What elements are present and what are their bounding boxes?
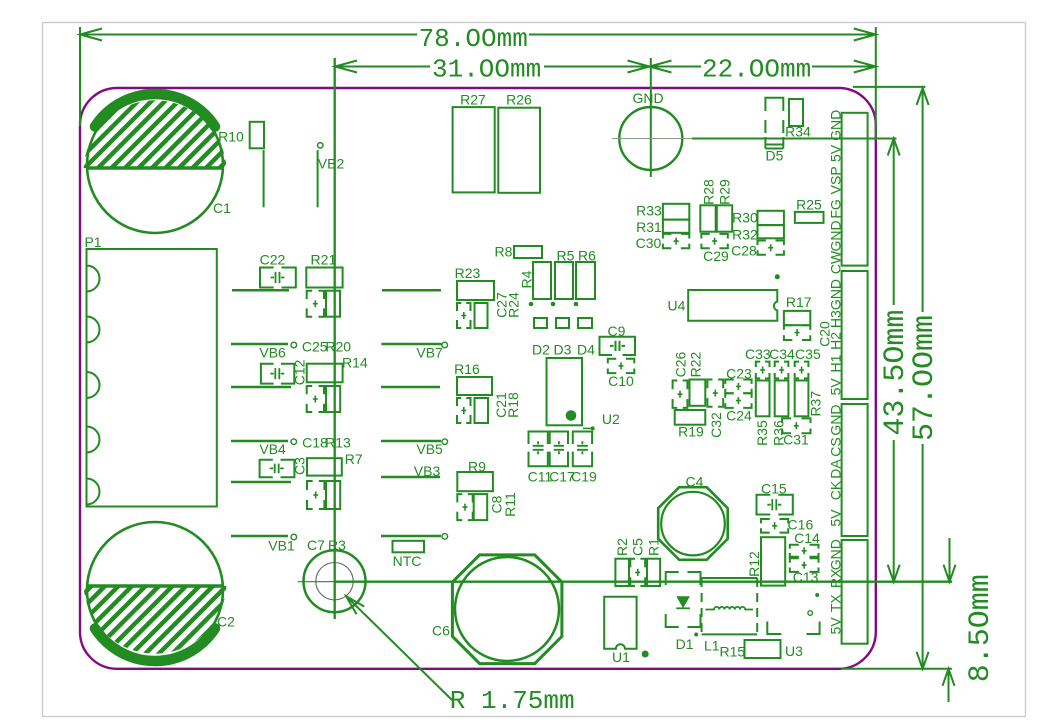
svg-text:TX: TX [828, 594, 844, 613]
resistor under R7 [326, 481, 340, 509]
capacitor C1 [0, 75, 380, 255]
capacitor C18 [260, 435, 328, 478]
resistor R27 [453, 92, 495, 193]
svg-text:C34: C34 [769, 346, 795, 362]
resistor R6 [576, 248, 596, 300]
pin label FG y208.9 [828, 199, 844, 218]
wire y=290 right [382, 289, 441, 292]
resistor R30 [732, 210, 784, 226]
svg-text:CW: CW [828, 250, 844, 274]
capacitor C10 [608, 359, 635, 389]
svg-text:U2: U2 [602, 411, 620, 427]
svg-text:VB5: VB5 [416, 441, 443, 457]
svg-text:R27: R27 [460, 92, 486, 108]
svg-text:C14: C14 [794, 530, 820, 546]
resistor R8 [495, 244, 542, 260]
capacitor C33 [745, 346, 771, 378]
svg-text:31.OOmm: 31.OOmm [432, 54, 541, 84]
svg-text:C3: C3 [292, 457, 308, 475]
wire y=290 left [232, 289, 289, 292]
pin label CW y262.5 [828, 250, 844, 274]
svg-text:R9: R9 [468, 459, 486, 475]
svg-text:R8: R8 [495, 244, 513, 260]
resistor R24 [475, 292, 522, 328]
svg-text:C5: C5 [630, 538, 646, 556]
capacitor C30 [636, 234, 690, 251]
capacitor C31 [782, 418, 810, 447]
capacitor C20 [784, 321, 833, 347]
pin label 5V y518 [828, 509, 844, 527]
svg-text:5V: 5V [828, 144, 844, 162]
dimension 8.50mm [943, 538, 999, 702]
svg-text:R21: R21 [311, 252, 337, 268]
svg-text:FG: FG [828, 199, 844, 218]
svg-text:GND: GND [828, 279, 844, 310]
capacitor C13 [790, 558, 819, 585]
svg-text:H3: H3 [828, 310, 844, 328]
resistor under R21 [326, 291, 340, 317]
wire NTC row [381, 534, 448, 540]
capacitor C16 [761, 516, 813, 532]
pin label CK y490.5 [828, 480, 844, 500]
capacitor C27 [457, 292, 510, 328]
svg-text:R34: R34 [785, 124, 811, 140]
svg-text:57.OOmm: 57.OOmm [908, 315, 942, 441]
svg-text:VB3: VB3 [414, 463, 441, 479]
dimension 31.00mm [335, 54, 650, 84]
svg-text:RX: RX [828, 568, 844, 588]
capacitor C12 label [292, 359, 308, 385]
resistor R9 [457, 459, 493, 492]
wire VB1 [231, 534, 297, 553]
svg-text:VB6: VB6 [259, 345, 286, 361]
svg-text:U1: U1 [612, 649, 630, 665]
extension line y=668.8 bottom right [841, 668, 952, 670]
diode D3 [554, 318, 572, 358]
wire VB6 [231, 342, 297, 360]
svg-text:C13: C13 [793, 569, 819, 585]
dimension 22.00mm [650, 54, 876, 84]
resistor R15 [719, 640, 780, 660]
ic U3 [767, 593, 819, 659]
pin label CS y447 [828, 437, 844, 456]
pin label 5V y153.4 [828, 144, 844, 162]
capacitor C34 [769, 346, 795, 378]
extension line y=582 [298, 581, 952, 583]
ic U4 [668, 290, 778, 321]
capacitor C19 [571, 432, 597, 485]
pin label GND y420 [828, 404, 844, 435]
capacitor C23 [725, 366, 752, 394]
svg-text:C25: C25 [302, 339, 328, 355]
pin label GND y294.5 [828, 279, 844, 310]
resistor R29 [717, 179, 733, 232]
svg-text:C7: C7 [307, 537, 325, 553]
svg-text:CK: CK [828, 480, 844, 500]
capacitor C14 [790, 530, 820, 557]
resistor R33 [636, 203, 689, 220]
svg-text:D1: D1 [676, 636, 694, 652]
board outline [80, 88, 876, 669]
connector J segment 3 [842, 404, 868, 536]
svg-text:R30: R30 [732, 210, 758, 226]
connector P1 [84, 234, 216, 507]
resistor R14 label [342, 355, 368, 371]
svg-text:C23: C23 [726, 366, 752, 382]
capacitor under R7 [307, 481, 324, 509]
svg-text:R32: R32 [732, 227, 758, 243]
capacitor C26 [673, 351, 689, 407]
svg-text:U3: U3 [785, 643, 803, 659]
inductor C6 [432, 555, 562, 664]
pin label VSP y180.3 [828, 166, 844, 194]
svg-text:C18: C18 [302, 435, 328, 451]
capacitor C11 [528, 432, 553, 485]
svg-text:C24: C24 [726, 408, 752, 424]
extension line x=650.5 through GND hole [650, 58, 652, 177]
svg-text:R 1.75mm: R 1.75mm [450, 686, 575, 716]
junction dot near U4 [775, 274, 780, 279]
svg-text:22.OOmm: 22.OOmm [702, 54, 811, 84]
svg-text:GND: GND [632, 90, 663, 106]
svg-text:C1: C1 [213, 200, 231, 216]
resistor R5 [555, 248, 575, 300]
wire y=387 right [381, 386, 440, 389]
extension line x=335 to hole center [334, 58, 336, 619]
pin label H3 y319.2 [828, 310, 844, 328]
svg-text:U4: U4 [668, 298, 686, 314]
svg-text:R12: R12 [746, 551, 762, 577]
svg-text:R37: R37 [808, 391, 824, 417]
svg-text:C26: C26 [673, 351, 689, 377]
resistor R31 [636, 219, 689, 235]
pin label H1 y363.5 [828, 354, 844, 372]
svg-text:R15: R15 [719, 644, 745, 660]
connector J segment 4 [842, 540, 868, 644]
svg-text:D3: D3 [554, 342, 572, 358]
svg-text:C15: C15 [761, 481, 787, 497]
junction dots under R4 R5 R6 [529, 302, 579, 307]
svg-text:R35: R35 [754, 420, 770, 446]
svg-text:P1: P1 [84, 234, 101, 250]
capacitor C22 [260, 252, 296, 288]
resistor under R20 [326, 386, 340, 412]
resistor R20 [307, 339, 352, 383]
svg-text:D4: D4 [577, 342, 595, 358]
svg-text:R14: R14 [342, 355, 368, 371]
resistor R18 [475, 392, 522, 423]
svg-text:L1: L1 [704, 637, 720, 653]
inductor L1 [702, 578, 758, 653]
svg-text:R7: R7 [345, 451, 363, 467]
svg-text:C10: C10 [608, 373, 634, 389]
svg-text:R25: R25 [796, 197, 822, 213]
svg-text:NTC: NTC [393, 553, 422, 569]
svg-text:R11: R11 [502, 492, 518, 517]
svg-text:C6: C6 [432, 623, 450, 639]
svg-text:R33: R33 [636, 203, 662, 219]
svg-text:8.5Omm: 8.5Omm [964, 574, 998, 682]
svg-text:GND: GND [828, 220, 844, 251]
svg-text:H1: H1 [828, 354, 844, 372]
extension line y=138.5 right [692, 138, 897, 140]
svg-text:C9: C9 [608, 323, 626, 339]
wire y=387 left [231, 386, 291, 389]
resistor R36 [771, 381, 789, 446]
svg-text:C29: C29 [703, 248, 729, 264]
capacitor C4 [658, 473, 728, 559]
resistor R1 [646, 538, 662, 586]
resistor R21 [306, 252, 342, 288]
thermistor NTC [393, 541, 425, 569]
svg-text:D5: D5 [766, 148, 784, 164]
resistor R23 [455, 265, 494, 300]
svg-text:D2: D2 [532, 342, 550, 358]
capacitor C15 [757, 481, 793, 515]
pin label GND y554.7 [828, 539, 844, 570]
svg-text:VB1: VB1 [268, 538, 295, 554]
svg-text:C33: C33 [745, 346, 771, 362]
svg-text:C2: C2 [217, 614, 235, 630]
hole C7 R3 [304, 537, 366, 612]
svg-text:VB7: VB7 [416, 345, 443, 361]
svg-text:GND: GND [828, 539, 844, 570]
diode D2 [532, 318, 550, 358]
svg-text:R19: R19 [678, 424, 704, 440]
connector J segment 1 [842, 113, 868, 266]
svg-text:H2: H2 [828, 332, 844, 350]
diode D5 [765, 98, 783, 164]
extension line y=88 right [853, 86, 925, 88]
svg-text:R31: R31 [636, 219, 662, 235]
ic U1 [604, 597, 649, 665]
svg-text:5V: 5V [828, 378, 844, 396]
svg-text:R2: R2 [614, 538, 630, 556]
svg-text:R17: R17 [786, 294, 812, 310]
resistor R4 [519, 262, 552, 299]
ic U2 [547, 358, 620, 430]
capacitor C24 [725, 393, 752, 423]
dimension 57.00mm [908, 88, 942, 669]
svg-text:R24: R24 [506, 292, 522, 318]
resistor R22 [688, 351, 706, 405]
resistor R37 [795, 381, 824, 417]
svg-text:R5: R5 [557, 248, 575, 264]
svg-text:VSP: VSP [828, 166, 844, 194]
capacitor C2 [0, 500, 380, 680]
pin label 5V y386.8 [828, 378, 844, 396]
svg-text:R10: R10 [218, 129, 244, 145]
resistor R13 label [325, 435, 351, 451]
capacitor C32 [707, 380, 724, 438]
svg-text:R22: R22 [688, 351, 704, 377]
svg-text:78.OOmm: 78.OOmm [419, 24, 528, 54]
svg-text:R23: R23 [455, 265, 481, 281]
hole GND [612, 90, 692, 170]
dimension 78.00mm [80, 24, 876, 140]
resistor R32 [732, 225, 784, 242]
resistor R35 [754, 381, 770, 446]
capacitor under R21 [307, 291, 324, 317]
capacitor C29 [701, 234, 729, 264]
svg-text:C19: C19 [571, 469, 597, 485]
resistor R25 [795, 197, 824, 223]
capacitor C9 [600, 323, 636, 355]
pin label DA y469 [828, 459, 844, 479]
resistor R12 [746, 537, 785, 585]
resistor R19 [675, 410, 706, 440]
svg-text:C30: C30 [636, 235, 662, 251]
capacitor under R20 [307, 386, 324, 412]
capacitor C35 [795, 346, 821, 378]
resistor R10 [218, 122, 264, 208]
resistor R17 [784, 294, 812, 325]
svg-text:R16: R16 [454, 361, 480, 377]
svg-text:GND: GND [828, 404, 844, 435]
pin label GND y125.3 [828, 110, 844, 141]
wire VB4 [231, 439, 297, 457]
diode D4 [577, 318, 595, 358]
svg-text:R29: R29 [717, 179, 733, 205]
pin label TX y603.2 [828, 594, 844, 613]
wire VB3 [381, 463, 440, 479]
node VB2 [318, 143, 345, 208]
resistor R2 [614, 538, 630, 586]
diode D1 [666, 572, 701, 652]
svg-text:C4: C4 [686, 473, 704, 489]
svg-text:GND: GND [828, 110, 844, 141]
svg-text:VB2: VB2 [318, 156, 345, 172]
dimension 43.50mm [879, 139, 913, 582]
pin label GND y235.9 [828, 220, 844, 251]
svg-text:R26: R26 [506, 92, 532, 108]
connector J segment 2 [842, 271, 868, 399]
svg-text:5V: 5V [828, 617, 844, 635]
capacitor C5 [630, 538, 646, 586]
svg-text:C32: C32 [708, 412, 724, 438]
svg-text:R18: R18 [505, 392, 521, 418]
resistor R7 [307, 451, 363, 476]
svg-text:R4: R4 [519, 270, 535, 288]
svg-text:DA: DA [828, 459, 844, 479]
svg-text:CS: CS [828, 437, 844, 456]
svg-text:C22: C22 [260, 252, 286, 268]
pin label 5V y625.9 [828, 617, 844, 635]
capacitor C21 [457, 392, 509, 423]
capacitor C3 label [292, 457, 308, 475]
leader R 1.75mm [346, 596, 574, 716]
svg-text:C35: C35 [795, 346, 821, 362]
svg-text:R6: R6 [578, 248, 596, 264]
pin label RX y578.4 [828, 568, 844, 588]
svg-text:R13: R13 [325, 435, 351, 451]
svg-text:5V: 5V [828, 509, 844, 527]
svg-text:C31: C31 [783, 432, 809, 448]
wire VB5 [381, 439, 448, 457]
svg-text:R28: R28 [701, 179, 717, 205]
resistor R26 [498, 92, 540, 193]
svg-text:R1: R1 [646, 538, 662, 556]
svg-text:C28: C28 [731, 243, 757, 259]
svg-text:R3: R3 [328, 537, 346, 553]
resistor R16 [454, 361, 492, 395]
svg-text:C12: C12 [292, 359, 308, 385]
capacitor C17 [549, 432, 575, 485]
resistor R11 [474, 492, 518, 520]
svg-text:VB4: VB4 [259, 441, 286, 457]
wire VB7 [381, 342, 447, 360]
resistor R34 [785, 99, 811, 140]
resistor R28 [700, 179, 716, 232]
svg-text:R20: R20 [325, 339, 351, 355]
wire y=482 left [231, 481, 291, 484]
pin label H2 y340.9 [828, 332, 844, 350]
capacitor C25 [261, 339, 328, 384]
capacitor C28 [731, 241, 784, 259]
capacitor C8 [457, 494, 504, 520]
